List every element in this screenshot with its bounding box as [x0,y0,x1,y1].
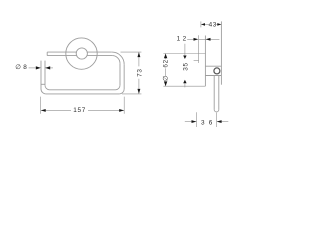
wall vertical line [220,21,222,84]
73 bottom extension line [122,93,141,95]
73 dim line bottom segment [138,79,140,94]
36 right tick [216,113,218,127]
bar cross-section circle [214,68,220,74]
rose bottom extension line [163,85,205,87]
dia62 dim line top segment [165,54,167,60]
svg-text:6: 6 [209,120,213,127]
35 dim line top segment [184,44,186,56]
35 top arrow [183,56,186,60]
dia8 right arrow tail [45,67,53,69]
bottom-left inner corner [45,85,50,90]
36 left arrow [192,120,197,123]
small horizontal stub line [194,60,199,62]
36 left tick [196,112,198,127]
12 dim line between ticks [199,38,206,40]
left riser outer line [40,61,42,89]
73 bottom arrow [137,89,140,94]
right outer vertical [123,64,125,89]
dia8 right arrow [45,66,50,69]
svg-text:8: 8 [23,64,27,71]
12 right arrow tail [205,38,219,40]
43 dim line right stub [216,23,221,25]
12 left arrow [194,38,199,41]
157 dim line right segment [88,109,124,111]
svg-text:73: 73 [136,68,143,77]
svg-text:∅: ∅ [15,64,21,71]
rose top extension line [163,53,205,55]
73 dim line top segment [138,52,140,66]
12 leader line [187,38,194,40]
157 right extension line [123,97,125,114]
43 dim line left stub [201,23,209,25]
12 right arrow [206,38,211,41]
dia62 dim line bottom segment [165,82,167,86]
35 bottom arrow [183,80,186,84]
dia62 bottom arrow [164,81,167,86]
hanging bar front line [213,76,215,110]
35 dim line bottom segment [184,83,186,87]
outer rose circle [66,38,97,69]
dia62 dim line middle segment [165,68,167,76]
arm box bottom line [205,75,221,77]
157 left extension line [40,97,42,114]
svg-text:43: 43 [209,21,217,28]
dia8 leader line [29,67,36,69]
top-right inner corner [112,56,120,64]
right inner vertical [119,63,121,85]
svg-text:12: 12 [177,35,189,42]
36 right arrow tail [217,121,229,123]
svg-text:3: 3 [201,120,205,127]
73 top arrow [137,52,140,57]
bottom-right outer corner [119,89,124,94]
top bar upper line (left of hub) [47,51,77,53]
top bar lower line (left of hub) [47,55,77,57]
73 top extension line [121,51,142,53]
43 right arrow [217,23,221,26]
157 right arrow [119,109,124,112]
dia62 top arrow [164,54,167,59]
43 left arrow [201,23,205,26]
157 left arrow [41,109,46,112]
small vertical stub line [198,44,200,63]
svg-text:62: 62 [162,59,169,68]
bottom-right inner corner [116,85,121,90]
svg-text:157: 157 [73,107,86,114]
hanging bar bottom cap [214,110,219,112]
left riser inner line [44,61,46,86]
157 dim line left segment [41,109,71,111]
arm box top line [205,65,221,67]
rose front vertical line [204,36,206,87]
12 left tick [198,35,200,43]
left riser joint line [41,83,45,85]
hanging bar back line [218,76,220,110]
bar left end cap [46,52,48,56]
36 right arrow [217,120,222,123]
svg-text:∅: ∅ [162,76,169,82]
svg-text:35: 35 [182,62,189,71]
top bar upper line (right of hub) [87,51,112,53]
top-right outer corner [112,52,124,64]
dia8 left arrow [36,66,41,69]
bottom inner line [50,89,116,91]
36 left arrow tail [185,121,197,123]
inner hub circle [76,48,87,59]
top bar lower line (right of hub) [87,55,113,57]
bottom-left outer corner [41,89,46,94]
43 left tick [200,21,202,27]
bottom outer line [46,93,119,95]
